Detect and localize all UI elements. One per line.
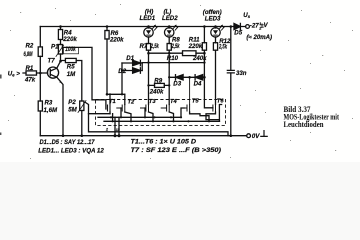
svg-text:T7 : SF 123 E ...F (B >350): T7 : SF 123 E ...F (B >350) xyxy=(131,147,222,154)
svg-text:T4: T4 xyxy=(170,99,178,105)
svg-text:240k: 240k xyxy=(192,55,207,62)
svg-text:240k: 240k xyxy=(149,88,164,95)
svg-text:T2: T2 xyxy=(128,100,136,106)
svg-text:220k: 220k xyxy=(188,43,203,50)
svg-text:R3: R3 xyxy=(45,99,53,106)
svg-text:D1...D5 : SAY 12...17: D1...D5 : SAY 12...17 xyxy=(40,139,95,146)
svg-text:D2: D2 xyxy=(118,68,126,75)
svg-text:T7: T7 xyxy=(48,58,56,65)
svg-text:47k: 47k xyxy=(24,77,36,84)
svg-text:-27 ±: -27 ± xyxy=(250,23,265,30)
svg-text:1,6M: 1,6M xyxy=(44,107,58,114)
svg-text:D3: D3 xyxy=(173,81,181,88)
svg-text:(≈ 20mA): (≈ 20mA) xyxy=(246,34,272,41)
svg-text:220k: 220k xyxy=(62,36,77,43)
svg-text:Leuchtdioden: Leuchtdioden xyxy=(284,120,324,129)
svg-text:R9: R9 xyxy=(154,78,162,85)
svg-text:1M: 1M xyxy=(67,71,76,78)
svg-text:2,5k: 2,5k xyxy=(171,43,180,50)
svg-text:5M: 5M xyxy=(68,106,77,113)
svg-text:R2: R2 xyxy=(26,43,34,50)
svg-text:13: 13 xyxy=(116,128,120,132)
svg-text:100k: 100k xyxy=(65,46,76,53)
svg-text:R1: R1 xyxy=(26,65,34,72)
svg-text:D5: D5 xyxy=(234,30,242,37)
svg-text:LED2: LED2 xyxy=(162,15,178,22)
svg-text:T5: T5 xyxy=(192,99,200,105)
svg-text:P2: P2 xyxy=(68,99,76,106)
svg-text:6,8M: 6,8M xyxy=(24,51,34,58)
svg-text:33n: 33n xyxy=(236,70,247,77)
svg-text:T3: T3 xyxy=(149,99,157,105)
svg-text:2: 2 xyxy=(105,128,108,132)
svg-text:2,5k: 2,5k xyxy=(218,43,227,50)
svg-text:0V: 0V xyxy=(252,133,261,140)
svg-text:LED1: LED1 xyxy=(140,15,156,22)
svg-text:T6: T6 xyxy=(217,99,225,105)
svg-text:D4: D4 xyxy=(194,81,202,88)
svg-text:LED1... LED3 : VQA 12: LED1... LED3 : VQA 12 xyxy=(38,148,104,155)
svg-text:>: > xyxy=(16,71,20,78)
svg-text:1: 1 xyxy=(259,22,261,26)
svg-text:T1: T1 xyxy=(109,99,116,105)
svg-text:R5: R5 xyxy=(67,63,75,70)
svg-text:D1: D1 xyxy=(126,55,134,62)
svg-text:R7: R7 xyxy=(140,43,148,50)
svg-text:LED3: LED3 xyxy=(205,15,221,22)
svg-text:220k: 220k xyxy=(109,36,124,43)
svg-text:T1...T6 : 1× U 105 D: T1...T6 : 1× U 105 D xyxy=(131,139,197,146)
svg-text:2,5k: 2,5k xyxy=(150,43,159,50)
svg-text:R10: R10 xyxy=(167,55,179,62)
svg-text:P1: P1 xyxy=(51,44,59,51)
